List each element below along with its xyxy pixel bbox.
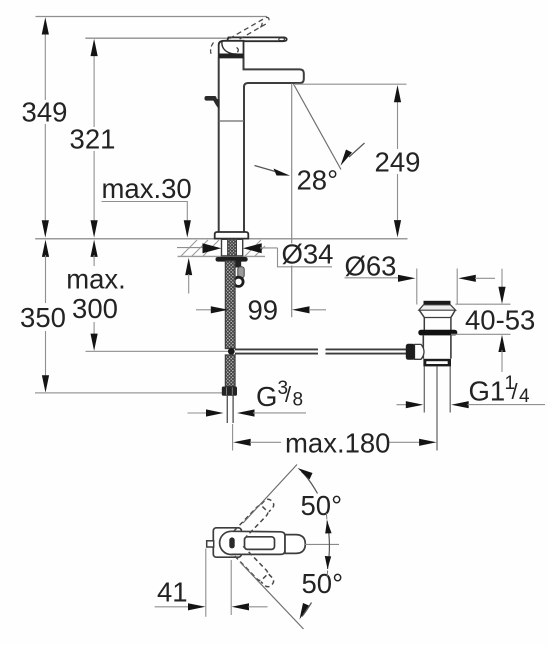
countertop bottom surface line xyxy=(178,255,266,257)
dimension 249 xyxy=(375,85,421,237)
svg-text:G1: G1 xyxy=(469,376,506,407)
top view pop-up rod tab xyxy=(207,541,214,547)
supply hose lower section xyxy=(225,355,235,387)
top view pivot slot xyxy=(229,537,234,548)
base flange xyxy=(215,232,249,239)
dashed handle rotated down 50 xyxy=(234,546,276,589)
dimension 349 xyxy=(22,17,68,237)
drain pop-up waste: extension lines for Ø63 xyxy=(417,269,457,305)
dimension 99 xyxy=(196,295,326,326)
extension line top of 349 xyxy=(36,16,268,18)
drain lower body xyxy=(423,335,451,358)
label G1 1/4 with arrows xyxy=(397,373,546,408)
dashed handle rotated up 50 xyxy=(234,497,276,540)
dimension max.300 xyxy=(66,240,126,351)
label Ø34 xyxy=(278,239,334,270)
water stream 28 degree line xyxy=(294,84,342,170)
drain bottom nut xyxy=(423,359,451,367)
svg-text:max.180: max.180 xyxy=(285,428,390,459)
cartridge dome xyxy=(219,41,244,58)
svg-text:321: 321 xyxy=(70,124,116,155)
drain cap xyxy=(419,301,456,310)
svg-text:50°: 50° xyxy=(302,568,344,599)
dimension 40-53 xyxy=(451,269,535,372)
svg-text:/: / xyxy=(285,382,292,407)
svg-text:99: 99 xyxy=(248,295,279,326)
dimension max.30 xyxy=(102,173,192,238)
dimension arrows of Ø34 at shank xyxy=(177,243,278,253)
top view handle capsule xyxy=(231,531,285,554)
svg-text:/: / xyxy=(512,379,519,404)
svg-text:50°: 50° xyxy=(301,490,343,521)
50 degree boundary line upper xyxy=(243,465,297,524)
top view centerline right xyxy=(304,543,339,545)
svg-text:41: 41 xyxy=(157,577,188,608)
svg-text:28°: 28° xyxy=(297,165,339,196)
svg-text:300: 300 xyxy=(72,293,118,324)
svg-text:Ø34: Ø34 xyxy=(282,239,334,270)
G3/8 tail tube xyxy=(227,396,233,423)
svg-text:max.: max. xyxy=(66,264,126,295)
top view cartridge circle xyxy=(220,531,243,554)
svg-text:max.30: max.30 xyxy=(102,173,192,204)
clamp hook beside hose xyxy=(234,262,244,287)
svg-text:4: 4 xyxy=(519,386,530,407)
label Ø63 with arrows xyxy=(345,251,496,282)
countertop section hatching xyxy=(181,240,265,256)
top view body square xyxy=(213,528,241,557)
water stream vertical line xyxy=(291,84,293,318)
drain tailpipe xyxy=(424,366,450,450)
dimension 321 xyxy=(70,39,116,238)
drain upper body xyxy=(419,310,455,330)
50 degree boundary line lower xyxy=(240,562,304,629)
svg-text:8: 8 xyxy=(293,390,304,411)
faucet head / spout arm outline xyxy=(244,58,304,88)
dimension 350 xyxy=(20,240,66,393)
350 bottom reference line xyxy=(35,392,222,394)
lever raised position (dashed) xyxy=(230,17,270,43)
svg-text:40-53: 40-53 xyxy=(465,305,535,336)
max.30 lower arrow xyxy=(185,258,192,294)
svg-text:249: 249 xyxy=(375,147,421,178)
28 degree label xyxy=(255,143,365,196)
svg-text:Ø63: Ø63 xyxy=(345,251,397,282)
faucet column body xyxy=(219,58,244,232)
lever handle (horizontal) xyxy=(226,37,287,46)
top view handle tip xyxy=(285,535,305,554)
extension line top of 321 xyxy=(85,37,228,39)
dimension 41 xyxy=(155,549,268,617)
drain flange (black band) xyxy=(418,330,457,336)
upper 50 arc arrow xyxy=(298,468,318,494)
extension line for 249 top xyxy=(295,83,407,85)
G3/8 connector nut xyxy=(222,387,237,396)
label G3/8 with arrows xyxy=(188,378,307,417)
swing arc with arrows xyxy=(325,513,332,577)
pop-up rod knob xyxy=(205,96,220,110)
svg-text:349: 349 xyxy=(22,97,68,128)
dome swing ghost (dashed arc) xyxy=(211,43,214,57)
horizontal rod to drain xyxy=(235,349,407,353)
mounting shank through counter xyxy=(222,239,243,256)
body joint line xyxy=(219,120,244,122)
hose junction node xyxy=(228,348,235,355)
svg-text:G: G xyxy=(256,381,277,412)
mounting nut under counter xyxy=(216,257,248,262)
supply hose upper section xyxy=(225,261,235,349)
drain side inlet cone xyxy=(406,344,424,360)
label 50 upper xyxy=(301,490,343,521)
lower 50 arc arrow xyxy=(300,603,312,620)
svg-text:350: 350 xyxy=(20,302,66,333)
max.300 bottom reference line xyxy=(86,350,229,352)
dimension max.180 xyxy=(233,424,437,459)
countertop top surface line xyxy=(35,238,407,240)
label 50 lower xyxy=(302,568,344,599)
